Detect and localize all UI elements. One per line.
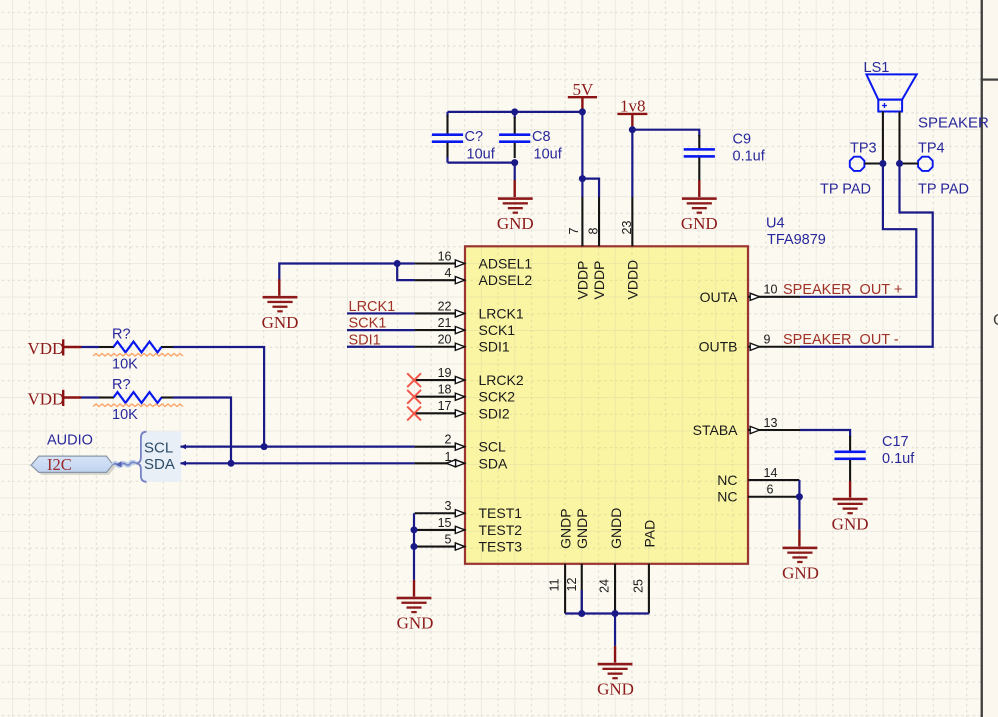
pin 6 NC: [717, 483, 799, 505]
pin 15 TEST2: [415, 516, 523, 538]
power GND stub (ADSEL): [278, 279, 280, 296]
compile squiggle R2: [93, 404, 183, 407]
wire jog to pin8: [582, 179, 599, 197]
svg-text:24: 24: [598, 579, 612, 593]
wire OUTB: [800, 164, 933, 347]
wire top bus: [448, 111, 583, 113]
svg-text:SDA: SDA: [144, 456, 175, 473]
wire SDI1: [347, 346, 415, 348]
junction pin24: [612, 610, 619, 617]
pin 14 NC: [717, 466, 799, 488]
svg-text:C: C: [993, 312, 998, 329]
pin 5 TEST3: [415, 532, 523, 554]
svg-text:3: 3: [445, 499, 452, 513]
svg-text:22: 22: [438, 299, 452, 313]
svg-text:21: 21: [438, 316, 452, 330]
wire TEST tie: [413, 513, 415, 580]
svg-text:10: 10: [764, 283, 778, 297]
svg-text:AUDIO: AUDIO: [47, 432, 93, 448]
wire VDD to R2: [81, 396, 99, 398]
pin 24 GNDD: [598, 508, 624, 614]
wire 1v8 to C9: [632, 130, 699, 137]
speaker pin 2: [898, 112, 900, 164]
capacitor C? top pin: [446, 112, 448, 117]
svg-text:GND: GND: [262, 313, 299, 332]
resistor R2 pins: [99, 396, 114, 398]
capacitor C17: [835, 451, 866, 461]
speaker LS1: [864, 60, 917, 164]
test point TP3: [850, 141, 883, 171]
sheet margin strip: [983, 0, 998, 717]
svg-text:STABA: STABA: [693, 422, 739, 438]
svg-text:C?: C?: [465, 129, 484, 145]
ground GND (C9): [682, 197, 717, 214]
pin 16 ADSEL1: [415, 249, 533, 271]
pin 8 VDDP: [587, 197, 608, 300]
junction TP4: [896, 160, 903, 167]
svg-text:NC: NC: [717, 489, 737, 505]
svg-text:SPEAKER OUT -: SPEAKER OUT -: [783, 332, 899, 348]
svg-text:VDDD: VDDD: [625, 260, 641, 300]
test point TP4: [900, 141, 945, 171]
svg-text:SDI1: SDI1: [479, 339, 510, 355]
port I2C shadow: [34, 459, 116, 475]
svg-text:C9: C9: [733, 132, 752, 148]
ground GND (bottom): [598, 663, 633, 680]
svg-text:1: 1: [445, 450, 452, 464]
svg-text:0.1uf: 0.1uf: [882, 451, 915, 467]
speaker body: [878, 100, 902, 112]
power GND stub (NC): [798, 530, 800, 547]
svg-text:LRCK2: LRCK2: [479, 372, 524, 388]
resistor R2 zigzag: [114, 392, 162, 403]
svg-text:OUTB: OUTB: [699, 339, 738, 355]
wire OUTA: [800, 164, 916, 297]
ground GND (NC): [783, 547, 818, 564]
capacitor C8: [499, 133, 530, 143]
pin 9 OUTB: [699, 333, 800, 355]
wire SCK1: [347, 329, 415, 331]
wire R2 to SDA: [173, 398, 231, 464]
svg-text:C17: C17: [882, 434, 909, 450]
svg-text:SCK2: SCK2: [479, 389, 516, 405]
svg-text:18: 18: [438, 383, 452, 397]
ground GND (C8): [498, 197, 533, 214]
ground GND (TEST): [397, 597, 432, 614]
svg-text:GNDP: GNDP: [558, 508, 574, 548]
capacitor C17 top pin: [849, 436, 851, 451]
capacitor C?: [432, 133, 463, 143]
junction C8 top: [511, 108, 518, 115]
pin 21 SCK1: [415, 316, 516, 338]
wire entry arrow SDA: [180, 461, 186, 466]
speaker pin 1: [882, 112, 884, 164]
svg-text:OUTA: OUTA: [700, 289, 739, 305]
pin 22 LRCK1: [415, 299, 524, 321]
wire 5V down to pin7: [581, 112, 583, 197]
junction SCL/R1: [261, 443, 268, 450]
svg-text:7: 7: [567, 228, 581, 235]
harness cable squiggle: [114, 462, 136, 465]
power GND stub (bottom): [614, 646, 616, 663]
svg-text:VDDP: VDDP: [575, 261, 591, 300]
cable arrow: [116, 461, 122, 467]
wire STABA: [800, 430, 850, 437]
svg-text:I2C: I2C: [47, 455, 72, 474]
svg-text:PAD: PAD: [642, 520, 658, 548]
svg-text:12: 12: [565, 578, 579, 592]
power GND stub (TEST): [413, 580, 415, 597]
svg-text:25: 25: [632, 579, 646, 593]
svg-text:R?: R?: [112, 377, 131, 393]
svg-text:SCL: SCL: [479, 439, 506, 455]
sheet zone tick: [981, 79, 998, 81]
svg-text:TP PAD: TP PAD: [820, 182, 871, 198]
svg-text:TEST3: TEST3: [479, 539, 523, 555]
speaker polarity +: [882, 103, 887, 108]
svg-text:TP4: TP4: [918, 141, 945, 157]
harness brace: [136, 432, 147, 482]
svg-text:SPEAKER: SPEAKER: [918, 114, 989, 131]
svg-text:GND: GND: [782, 564, 819, 583]
pin 10 OUTA: [700, 283, 800, 305]
svg-text:6: 6: [767, 483, 774, 497]
wire bottom gnd bus: [565, 612, 649, 614]
svg-text:15: 15: [438, 516, 452, 530]
wire entry arrow SCL: [180, 444, 186, 449]
resistor R1 pins: [99, 346, 114, 348]
svg-text:5: 5: [445, 532, 452, 546]
wire ADSEL2 branch: [397, 264, 414, 281]
wire C8 gnd drop: [514, 163, 516, 181]
no-ERC cross pin 17: [407, 407, 421, 421]
svg-text:14: 14: [764, 466, 778, 480]
power GND stub (C17): [849, 481, 851, 498]
pin 4 ADSEL2: [415, 266, 533, 288]
svg-text:LRCK1: LRCK1: [479, 305, 524, 321]
svg-text:11: 11: [548, 578, 562, 591]
junction 1v8: [629, 126, 636, 133]
ground GND (ADSEL): [263, 296, 298, 313]
capacitor C? bottom pin: [446, 143, 448, 158]
svg-text:GNDP: GNDP: [574, 508, 590, 548]
pin 3 TEST1: [415, 499, 523, 521]
capacitor C9: [684, 148, 715, 158]
wire LRCK1: [347, 312, 415, 314]
junction C8 bottom: [511, 159, 518, 166]
pin 19 LRCK2: [415, 366, 524, 388]
junction pin12: [578, 610, 585, 617]
pin 20 SDI1: [415, 333, 510, 355]
harness connector body: [141, 431, 181, 482]
junction NC: [796, 493, 803, 500]
svg-text:8: 8: [587, 228, 601, 235]
power port 5V: [568, 80, 597, 112]
port I2C: [31, 456, 113, 472]
svg-text:GND: GND: [681, 214, 718, 233]
pin 13 STABA: [693, 416, 800, 438]
compile squiggle R1: [93, 354, 183, 357]
svg-text:GND: GND: [497, 214, 534, 233]
svg-text:23: 23: [620, 221, 634, 235]
svg-text:TFA9879: TFA9879: [767, 232, 826, 248]
pin 1 SDA: [415, 450, 508, 472]
svg-text:4: 4: [445, 266, 452, 280]
pin 25 PAD: [632, 520, 658, 614]
wire 1v8 down to pin23: [631, 130, 633, 197]
svg-text:10K: 10K: [112, 356, 138, 372]
svg-text:GND: GND: [397, 614, 434, 633]
capacitor C9 bottom pin: [698, 158, 700, 181]
capacitor C9 top pin: [698, 135, 700, 149]
pin 12 GNDP: [565, 508, 590, 613]
pin 23 VDDD: [620, 197, 641, 300]
wire pin12 stub: [581, 590, 583, 614]
svg-text:TEST2: TEST2: [479, 522, 523, 538]
wire SDA: [181, 462, 415, 464]
svg-text:10K: 10K: [112, 407, 138, 423]
svg-text:13: 13: [764, 416, 778, 430]
power port VDD (R2): [28, 390, 82, 409]
svg-text:GNDD: GNDD: [608, 508, 624, 549]
svg-text:TEST1: TEST1: [479, 505, 523, 521]
svg-text:16: 16: [438, 249, 452, 263]
junction TEST2: [411, 526, 418, 533]
pin 11 GNDP: [548, 508, 574, 613]
pin 17 SDI2: [415, 399, 510, 421]
wire bottom bus: [448, 162, 515, 164]
power port VDD (R1): [28, 339, 82, 358]
junction ADSEL: [394, 260, 401, 267]
sheet border line: [981, 0, 983, 717]
svg-text:10uf: 10uf: [534, 146, 563, 162]
svg-text:VDDP: VDDP: [591, 261, 607, 300]
svg-text:SPEAKER OUT +: SPEAKER OUT +: [783, 282, 902, 298]
junction SDA/R2: [228, 460, 235, 467]
svg-text:10uf: 10uf: [467, 146, 496, 162]
svg-text:ADSEL1: ADSEL1: [479, 256, 533, 272]
wire gnd drop: [614, 614, 616, 646]
no-ERC cross pin 18: [407, 390, 421, 404]
power port 1v8: [617, 97, 647, 130]
svg-text:19: 19: [438, 366, 452, 380]
svg-text:SCL: SCL: [144, 439, 173, 456]
svg-text:R?: R?: [112, 327, 131, 343]
svg-text:GND: GND: [597, 680, 634, 699]
wire SCL: [181, 446, 415, 448]
svg-text:GND: GND: [832, 515, 869, 534]
svg-text:TP PAD: TP PAD: [918, 182, 969, 198]
no-ERC cross pin 19: [407, 373, 421, 387]
junction TP3: [879, 160, 886, 167]
svg-text:1v8: 1v8: [620, 97, 646, 116]
svg-text:9: 9: [764, 333, 771, 347]
power GND stub (C8): [514, 180, 516, 197]
svg-text:TP3: TP3: [850, 141, 877, 157]
svg-text:NC: NC: [717, 472, 737, 488]
svg-text:ADSEL2: ADSEL2: [479, 272, 533, 288]
junction pin7/pin8 jog: [579, 175, 586, 182]
svg-text:2: 2: [445, 433, 452, 447]
svg-text:20: 20: [438, 333, 452, 347]
pin 7 VDDP: [567, 197, 591, 300]
pin 2 SCL: [415, 433, 506, 455]
capacitor C8 bottom pin: [514, 143, 516, 158]
wire VDD to R1: [81, 346, 99, 348]
resistor R1 zigzag: [114, 342, 162, 353]
junction TEST3: [411, 543, 418, 550]
pin 18 SCK2: [415, 383, 516, 405]
svg-text:C8: C8: [532, 129, 551, 145]
wire R1 to SCL: [173, 347, 264, 447]
capacitor C8 top pin: [514, 112, 516, 118]
svg-text:VDD: VDD: [28, 339, 65, 358]
power GND stub (C9): [698, 180, 700, 197]
wire ADSEL1 net: [279, 264, 414, 280]
svg-text:SCK1: SCK1: [479, 322, 516, 338]
speaker horn: [866, 74, 916, 99]
svg-text:17: 17: [438, 399, 452, 413]
capacitor C17 bottom pin: [849, 460, 851, 481]
IC U4 body: [465, 246, 748, 564]
junction 5V: [579, 108, 586, 115]
svg-text:SDI2: SDI2: [479, 405, 510, 421]
wire NC tie: [798, 480, 800, 530]
ground GND (C17): [833, 498, 868, 514]
svg-text:SDA: SDA: [479, 455, 508, 471]
svg-text:U4: U4: [766, 216, 785, 232]
svg-text:VDD: VDD: [28, 390, 65, 409]
svg-text:0.1uf: 0.1uf: [733, 148, 766, 164]
